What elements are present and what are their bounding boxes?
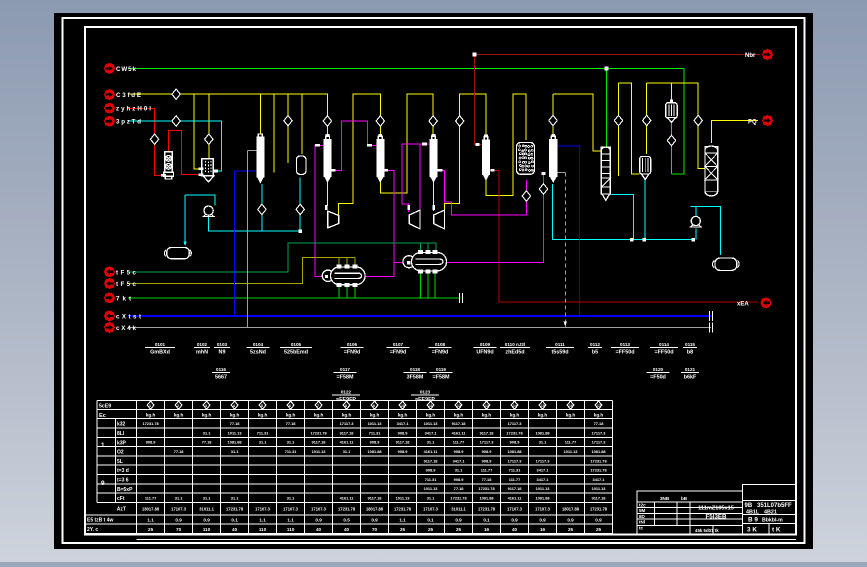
svg-text:351L07b5FF: 351L07b5FF — [757, 503, 792, 509]
svg-text:908.9: 908.9 — [398, 430, 409, 435]
svg-text:0.9: 0.9 — [315, 518, 322, 523]
wire dark red to flare — [489, 170, 758, 302]
svg-text:111.77: 111.77 — [453, 440, 464, 445]
wire green drop to column T6 — [606, 68, 608, 147]
svg-text:3417.1: 3417.1 — [593, 477, 606, 482]
wire yellow n5 horiz — [647, 83, 705, 168]
wire gray brine return bus — [128, 327, 711, 329]
wire green ex2 leg3 — [434, 272, 436, 298]
wire blue stub col T1 — [235, 170, 256, 172]
svg-text:31.1: 31.1 — [455, 468, 463, 473]
svg-text:4161.11: 4161.11 — [340, 440, 355, 445]
stream arrow f10 right vent — [762, 49, 773, 60]
svg-text:1011.13: 1011.13 — [368, 421, 383, 426]
svg-text:18017.88: 18017.88 — [562, 507, 580, 512]
wire darkgreen input cw return — [128, 243, 436, 272]
valve green V5 — [667, 135, 675, 145]
svg-text:3 K: 3 K — [747, 527, 757, 534]
svg-text:17117.3: 17117.3 — [536, 458, 551, 463]
column T1 — [258, 134, 262, 137]
nozzle t5 — [315, 144, 320, 147]
valve table hdr 12 — [455, 401, 462, 409]
svg-text:17231.78: 17231.78 — [478, 507, 496, 512]
svg-text:908.9: 908.9 — [146, 440, 157, 445]
wire yellow drop d5 — [287, 94, 289, 163]
svg-text:0105: 0105 — [291, 342, 302, 347]
stream label row1 x515 — [500, 342, 530, 356]
svg-text:0.9: 0.9 — [595, 518, 602, 523]
svg-text:8: 8 — [345, 404, 347, 408]
svg-text:7: 7 — [317, 404, 319, 408]
svg-text:1081.88: 1081.88 — [535, 430, 550, 435]
svg-text:711.31: 711.31 — [369, 430, 382, 435]
wire green from vessel V5 bottom — [671, 119, 673, 174]
nozzle t20 — [670, 100, 673, 102]
svg-text:9117.18: 9117.18 — [312, 440, 327, 445]
valve table hdr 9 — [371, 401, 378, 409]
svg-text:908.9: 908.9 — [454, 477, 465, 482]
svg-text:=FN9d: =FN9d — [344, 350, 361, 356]
svg-text:0113: 0113 — [620, 342, 630, 347]
svg-text:17107.3: 17107.3 — [283, 507, 299, 512]
svg-text:17231.78: 17231.78 — [310, 430, 327, 435]
svg-text:77.18: 77.18 — [594, 421, 605, 426]
stream label row1 x690 — [683, 342, 697, 356]
svg-text:0.9: 0.9 — [539, 518, 546, 523]
wire yellow n3 horiz — [553, 94, 601, 151]
wire yellow header — [128, 94, 327, 134]
svg-text:1011.13: 1011.13 — [536, 486, 551, 491]
svg-text:4161.11: 4161.11 — [340, 496, 355, 501]
wire yellow drop d6 to vessel A — [301, 94, 303, 154]
wire gray vert left — [247, 151, 249, 328]
svg-text:9117.18: 9117.18 — [592, 496, 607, 501]
wire cyan to drum D2 — [690, 206, 720, 255]
nozzle t17 — [299, 230, 302, 233]
svg-text:908.9: 908.9 — [398, 449, 409, 454]
svg-text:31.1: 31.1 — [287, 440, 295, 445]
svg-text:=FN9d: =FN9d — [390, 350, 407, 356]
wire gray stub col E4 — [557, 172, 566, 174]
svg-text:0.9: 0.9 — [175, 518, 182, 523]
stream arrow f8 left8 — [104, 310, 141, 321]
svg-text:1011.13: 1011.13 — [228, 430, 243, 435]
wire dg stub3 — [435, 243, 437, 251]
svg-text:17117.3: 17117.3 — [508, 458, 523, 463]
svg-text:3417.1: 3417.1 — [425, 430, 438, 435]
svg-text:111.77: 111.77 — [565, 440, 576, 445]
svg-text:0109: 0109 — [480, 342, 491, 347]
svg-text:0118: 0118 — [410, 367, 420, 372]
nozzle t19 — [407, 261, 410, 264]
svg-text:0111: 0111 — [555, 342, 565, 347]
svg-text:908.9: 908.9 — [426, 468, 437, 473]
stream label row1 x595 — [588, 342, 602, 356]
svg-text:kg.h: kg.h — [146, 413, 156, 418]
svg-text:k32: k32 — [117, 422, 126, 428]
svg-text:3417.1: 3417.1 — [397, 421, 410, 426]
svg-text:25: 25 — [568, 527, 574, 532]
svg-text:8D: 8D — [639, 514, 646, 519]
valve table hdr 8 — [343, 401, 350, 409]
nozzle E1 bot — [353, 284, 357, 287]
svg-text:110: 110 — [259, 527, 267, 532]
packed column T7 — [705, 147, 718, 192]
end marker gray bus — [710, 323, 713, 333]
nozzle E1 top — [353, 265, 357, 268]
svg-text:17231.78: 17231.78 — [226, 507, 244, 512]
wire yellow drop d4 — [273, 94, 275, 172]
svg-text:31011.1: 31011.1 — [451, 507, 466, 512]
stream label row1 x258 — [247, 342, 270, 356]
nozzle E1 top — [337, 265, 341, 268]
svg-text:C3fdE: C3fdE — [116, 92, 141, 99]
svg-text:1011.13: 1011.13 — [312, 449, 327, 454]
svg-text:25: 25 — [456, 527, 462, 532]
stream label row2 x441 — [430, 367, 453, 381]
pump P3 — [691, 216, 700, 225]
svg-text:31.1: 31.1 — [259, 440, 267, 445]
nozzle t12 — [432, 205, 435, 210]
svg-text:45k 5d01 tk: 45k 5d01 tk — [695, 528, 719, 533]
svg-text:17107.3: 17107.3 — [535, 507, 551, 512]
wire cyan pump3 drop — [695, 229, 697, 240]
valve yellow r4 — [614, 115, 622, 125]
stream label row3 x346 — [332, 390, 360, 404]
svg-text:kg.h: kg.h — [538, 413, 548, 418]
svg-text:0117: 0117 — [340, 367, 350, 372]
nozzle dark red corner node — [473, 53, 477, 57]
stream label row1 x485 — [474, 342, 497, 356]
nozzle E1 bot — [337, 284, 341, 287]
pump P1 — [204, 206, 213, 215]
svg-text:3417.1: 3417.1 — [453, 458, 466, 463]
nozzle E1 bot — [345, 284, 349, 287]
valve table hdr 16 — [567, 401, 574, 409]
svg-text:17231.78: 17231.78 — [506, 430, 523, 435]
column D3 — [432, 136, 436, 139]
svg-text:31.1: 31.1 — [427, 496, 435, 501]
wire olive stub2 — [346, 257, 348, 266]
svg-text:31.1: 31.1 — [231, 449, 239, 454]
packed reactor R1 — [517, 143, 535, 175]
svg-text:zyhzH0l: zyhzH0l — [116, 106, 151, 113]
svg-text:1081.88: 1081.88 — [535, 496, 550, 501]
svg-text:F5l3EB: F5l3EB — [706, 514, 728, 521]
valve cyan riser A — [296, 204, 304, 214]
nozzle t8 — [383, 169, 388, 172]
svg-text:111.77: 111.77 — [481, 468, 492, 473]
wire yellow n3 — [552, 94, 554, 136]
svg-text:1081.88: 1081.88 — [479, 496, 494, 501]
valve magenta ex2 — [539, 184, 547, 194]
wire green main header — [128, 68, 684, 173]
wire green ex1 leg1 — [338, 285, 340, 298]
stream arrow f6 left6 — [104, 278, 137, 289]
nozzle t6 — [367, 144, 372, 147]
valve yellow n5l — [643, 115, 651, 125]
column E4 — [551, 136, 555, 139]
svg-text:17231.78: 17231.78 — [590, 458, 607, 463]
column B1 (stripper) — [326, 136, 330, 139]
valve table hdr 6 — [287, 401, 294, 409]
svg-text:1081.88: 1081.88 — [507, 449, 522, 454]
valve table hdr 3 — [203, 401, 210, 409]
svg-text:1011.13: 1011.13 — [424, 486, 439, 491]
stream label row1 x296 — [280, 342, 312, 356]
wire cyan drum G drop — [644, 176, 646, 240]
svg-text:0103: 0103 — [217, 342, 228, 347]
svg-text:908.9: 908.9 — [482, 458, 493, 463]
stream label row1 x560 — [546, 342, 574, 356]
svg-text:17107.3: 17107.3 — [311, 507, 327, 512]
svg-text:70: 70 — [176, 527, 182, 532]
svg-text:17231.78: 17231.78 — [394, 507, 412, 512]
wire yellow drop d1 — [194, 94, 201, 169]
svg-text:4B21: 4B21 — [764, 510, 777, 516]
title block — [637, 485, 796, 535]
svg-text:t K: t K — [772, 527, 781, 534]
valve table hdr 13 — [483, 401, 490, 409]
svg-text:9117.18: 9117.18 — [480, 430, 495, 435]
valve yellow n5r — [694, 115, 702, 125]
nozzle E2 bot — [426, 270, 430, 273]
svg-text:111.77: 111.77 — [145, 496, 156, 501]
svg-text:4: 4 — [233, 404, 235, 408]
svg-text:0121: 0121 — [685, 367, 696, 372]
stream label row1 x398 — [387, 342, 410, 356]
svg-text:0101: 0101 — [155, 342, 166, 347]
svg-text:4161.11: 4161.11 — [508, 496, 523, 501]
svg-text:Nbr: Nbr — [745, 53, 756, 59]
svg-text:=F58M: =F58M — [433, 375, 450, 381]
nozzle t10 — [437, 169, 442, 172]
heat exchanger E2 — [403, 256, 415, 268]
svg-text:kg.h: kg.h — [482, 413, 492, 418]
end marker blue bus — [710, 311, 713, 321]
wire dg stub2 — [427, 243, 429, 251]
svg-text:tNl: tNl — [639, 520, 645, 525]
valve table hdr 10 — [399, 401, 406, 409]
svg-text:kg.h: kg.h — [174, 413, 184, 418]
svg-text:1081.88: 1081.88 — [228, 440, 243, 445]
svg-text:kg.h: kg.h — [314, 413, 324, 418]
wire magenta comp2 feed — [402, 144, 409, 212]
valve yellow C2 feed — [376, 116, 384, 126]
svg-text:0104: 0104 — [253, 342, 264, 347]
svg-text:908.9: 908.9 — [510, 440, 521, 445]
svg-text:1.1: 1.1 — [287, 518, 294, 523]
drum D1 inlet arrow — [183, 242, 186, 247]
svg-text:1011.13: 1011.13 — [564, 449, 579, 454]
svg-text:0102: 0102 — [197, 342, 208, 347]
svg-text:9117.18: 9117.18 — [508, 486, 523, 491]
wire red loop filter to vessel — [169, 130, 200, 174]
svg-text:711.31: 711.31 — [257, 430, 270, 435]
stream arrow f5 left5 — [104, 266, 137, 277]
svg-text:zhEd5d: zhEd5d — [505, 350, 524, 356]
svg-text:kg.h: kg.h — [454, 413, 464, 418]
nozzle E2 bot — [433, 270, 437, 273]
wire cyan drop to drum D1 — [184, 195, 186, 243]
svg-text:25: 25 — [400, 527, 406, 532]
svg-text:0116: 0116 — [216, 367, 226, 372]
valve yellow riser — [456, 116, 464, 126]
svg-text:9117.18: 9117.18 — [340, 430, 355, 435]
valve table hdr 7 — [315, 401, 322, 409]
svg-text:0.5: 0.5 — [343, 518, 350, 523]
drum D1 horizontal — [167, 247, 189, 258]
wire magenta col D3 right jog — [438, 170, 527, 215]
svg-text:9117.18: 9117.18 — [452, 421, 467, 426]
wire olive input — [128, 257, 355, 283]
svg-text:t=3 6: t=3 6 — [117, 478, 129, 484]
wire green ex1 leg3 — [354, 285, 356, 298]
svg-text:31.1: 31.1 — [203, 496, 211, 501]
valve red feed — [150, 134, 158, 144]
svg-text:77.18: 77.18 — [286, 421, 297, 426]
wire green ex2 leg2 — [427, 272, 429, 298]
svg-text:kg.h: kg.h — [426, 413, 436, 418]
nozzle t15 — [643, 238, 646, 241]
svg-text:17231.78: 17231.78 — [338, 507, 356, 512]
valve magenta reactor out — [522, 191, 530, 201]
nozzle t11 — [407, 205, 410, 210]
nozzle t9 — [422, 143, 427, 146]
svg-text:k3P: k3P — [117, 440, 127, 446]
nozzle t7 — [331, 169, 336, 172]
svg-text:3417.1: 3417.1 — [537, 477, 550, 482]
tray column T6 — [601, 147, 610, 194]
end marker green bus — [460, 293, 463, 303]
svg-text:b5: b5 — [592, 350, 598, 356]
svg-text:=F50d: =F50d — [650, 375, 666, 381]
wire yellow drop d3 — [260, 94, 262, 136]
svg-text:=FF50d: =FF50d — [654, 350, 673, 356]
svg-text:mhN: mhN — [196, 350, 208, 356]
svg-text:9117.18: 9117.18 — [424, 458, 439, 463]
svg-text:cFt: cFt — [117, 496, 125, 502]
svg-text:908.9: 908.9 — [454, 449, 465, 454]
stream arrow f4 left4 — [104, 116, 141, 127]
wire olive stub3 — [354, 257, 356, 266]
svg-text:1011.13: 1011.13 — [592, 486, 607, 491]
svg-text:1081.88: 1081.88 — [591, 449, 606, 454]
valve cyan feed — [172, 116, 180, 126]
nozzle t23 — [491, 169, 495, 172]
stream label row2 x658 — [647, 367, 670, 381]
svg-text:711.31: 711.31 — [509, 468, 522, 473]
svg-text:1: 1 — [149, 404, 151, 408]
svg-text:1.1: 1.1 — [399, 518, 406, 523]
svg-text:1081.88: 1081.88 — [368, 449, 383, 454]
svg-text:0119: 0119 — [436, 367, 446, 372]
wire dg stub1 — [420, 243, 422, 251]
valve table hdr 15 — [539, 401, 546, 409]
nozzle t14 — [630, 238, 633, 241]
svg-text:xEA: xEA — [737, 302, 749, 308]
svg-text:0108: 0108 — [435, 342, 446, 347]
svg-text:tc: tc — [639, 525, 644, 530]
svg-text:0115: 0115 — [685, 342, 695, 347]
svg-text:3417.1: 3417.1 — [537, 468, 550, 473]
svg-text:3F58M: 3F58M — [407, 375, 424, 381]
svg-text:17107.3: 17107.3 — [507, 507, 523, 512]
svg-text:0120: 0120 — [653, 367, 664, 372]
svg-text:kg.h: kg.h — [594, 413, 604, 418]
svg-text:5cE9: 5cE9 — [99, 404, 111, 410]
nozzle t4 — [213, 170, 218, 173]
svg-text:kg.h: kg.h — [230, 413, 240, 418]
svg-text:4B1L: 4B1L — [746, 510, 760, 516]
svg-text:40: 40 — [512, 527, 518, 532]
nozzle green junction — [605, 66, 609, 70]
svg-text:77.18: 77.18 — [482, 477, 493, 482]
svg-text:Bbkbl-m: Bbkbl-m — [762, 518, 783, 524]
stream arrow f12 right flare — [761, 297, 772, 308]
valve yellow d5 — [284, 116, 292, 126]
svg-text:1011.13: 1011.13 — [424, 421, 439, 426]
svg-text:0107: 0107 — [393, 342, 404, 347]
svg-text:110: 110 — [203, 527, 211, 532]
svg-text:1.1: 1.1 — [259, 518, 266, 523]
svg-text:0106: 0106 — [347, 342, 358, 347]
wire blue from col E4 — [557, 146, 580, 316]
wire yellow n4 — [619, 83, 640, 174]
svg-text:2: 2 — [177, 404, 179, 408]
valve table hdr 2 — [175, 401, 182, 409]
svg-text:40: 40 — [316, 527, 322, 532]
stream arrow f9 left9 — [104, 322, 137, 333]
svg-text:31.1: 31.1 — [231, 496, 239, 501]
svg-text:31.1: 31.1 — [287, 496, 295, 501]
valve yellow B1 feed — [323, 116, 331, 126]
svg-text:0114: 0114 — [659, 342, 669, 347]
wire cyan bus2 — [553, 184, 694, 240]
wire cyan riser col T1 — [261, 184, 263, 231]
svg-text:17117.3: 17117.3 — [480, 440, 495, 445]
svg-text:13: 13 — [485, 404, 489, 408]
stream arrow f7 left7 — [104, 292, 131, 303]
svg-text:kg.h: kg.h — [566, 413, 576, 418]
svg-text:0.9: 0.9 — [567, 518, 574, 523]
nozzle t16 — [691, 238, 694, 241]
svg-text:17: 17 — [597, 404, 601, 408]
svg-text:kg.h: kg.h — [258, 413, 268, 418]
svg-text:5L: 5L — [117, 459, 123, 465]
valve yellow n3 — [549, 115, 557, 125]
svg-text:17117.3: 17117.3 — [592, 440, 607, 445]
valve table hdr 1 — [147, 401, 154, 409]
valve yellow header — [172, 89, 180, 99]
junction mark gray — [564, 322, 567, 327]
svg-text:9B: 9B — [745, 503, 753, 509]
svg-text:111.77: 111.77 — [509, 477, 520, 482]
svg-text:17107.3: 17107.3 — [423, 507, 439, 512]
svg-text:77.18: 77.18 — [202, 440, 213, 445]
valve cyan riser T1 — [258, 204, 266, 214]
wire gray vert right — [564, 173, 566, 328]
svg-text:525bEmd: 525bEmd — [284, 350, 308, 356]
compressor K3 — [434, 210, 445, 229]
valve table hdr 17 — [595, 401, 602, 409]
nozzle t13 — [325, 205, 328, 210]
wire blue vert left — [234, 171, 236, 316]
svg-text:12: 12 — [457, 404, 461, 408]
stream label row2 x221 — [212, 367, 230, 381]
svg-text:31011.1: 31011.1 — [199, 507, 214, 512]
svg-text:0110 nJ2l: 0110 nJ2l — [505, 342, 525, 347]
